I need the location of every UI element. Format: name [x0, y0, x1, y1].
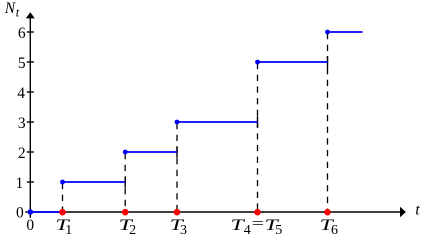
- svg-text:6: 6: [331, 223, 338, 238]
- svg-text:0: 0: [26, 217, 34, 234]
- svg-text:2: 2: [18, 145, 26, 162]
- svg-text:4: 4: [17, 85, 25, 102]
- svg-text:1: 1: [15, 175, 23, 192]
- svg-text:6: 6: [18, 25, 26, 42]
- svg-text:1: 1: [65, 223, 72, 238]
- svg-text:2: 2: [129, 223, 136, 238]
- svg-text:5: 5: [275, 223, 282, 238]
- svg-text:0: 0: [16, 205, 24, 222]
- svg-text:t: t: [415, 202, 420, 219]
- svg-text:t: t: [16, 5, 20, 19]
- svg-text:4: 4: [244, 223, 251, 238]
- svg-text:5: 5: [18, 55, 26, 72]
- svg-text:3: 3: [18, 115, 26, 132]
- svg-text:=: =: [252, 215, 264, 232]
- svg-text:3: 3: [180, 223, 187, 238]
